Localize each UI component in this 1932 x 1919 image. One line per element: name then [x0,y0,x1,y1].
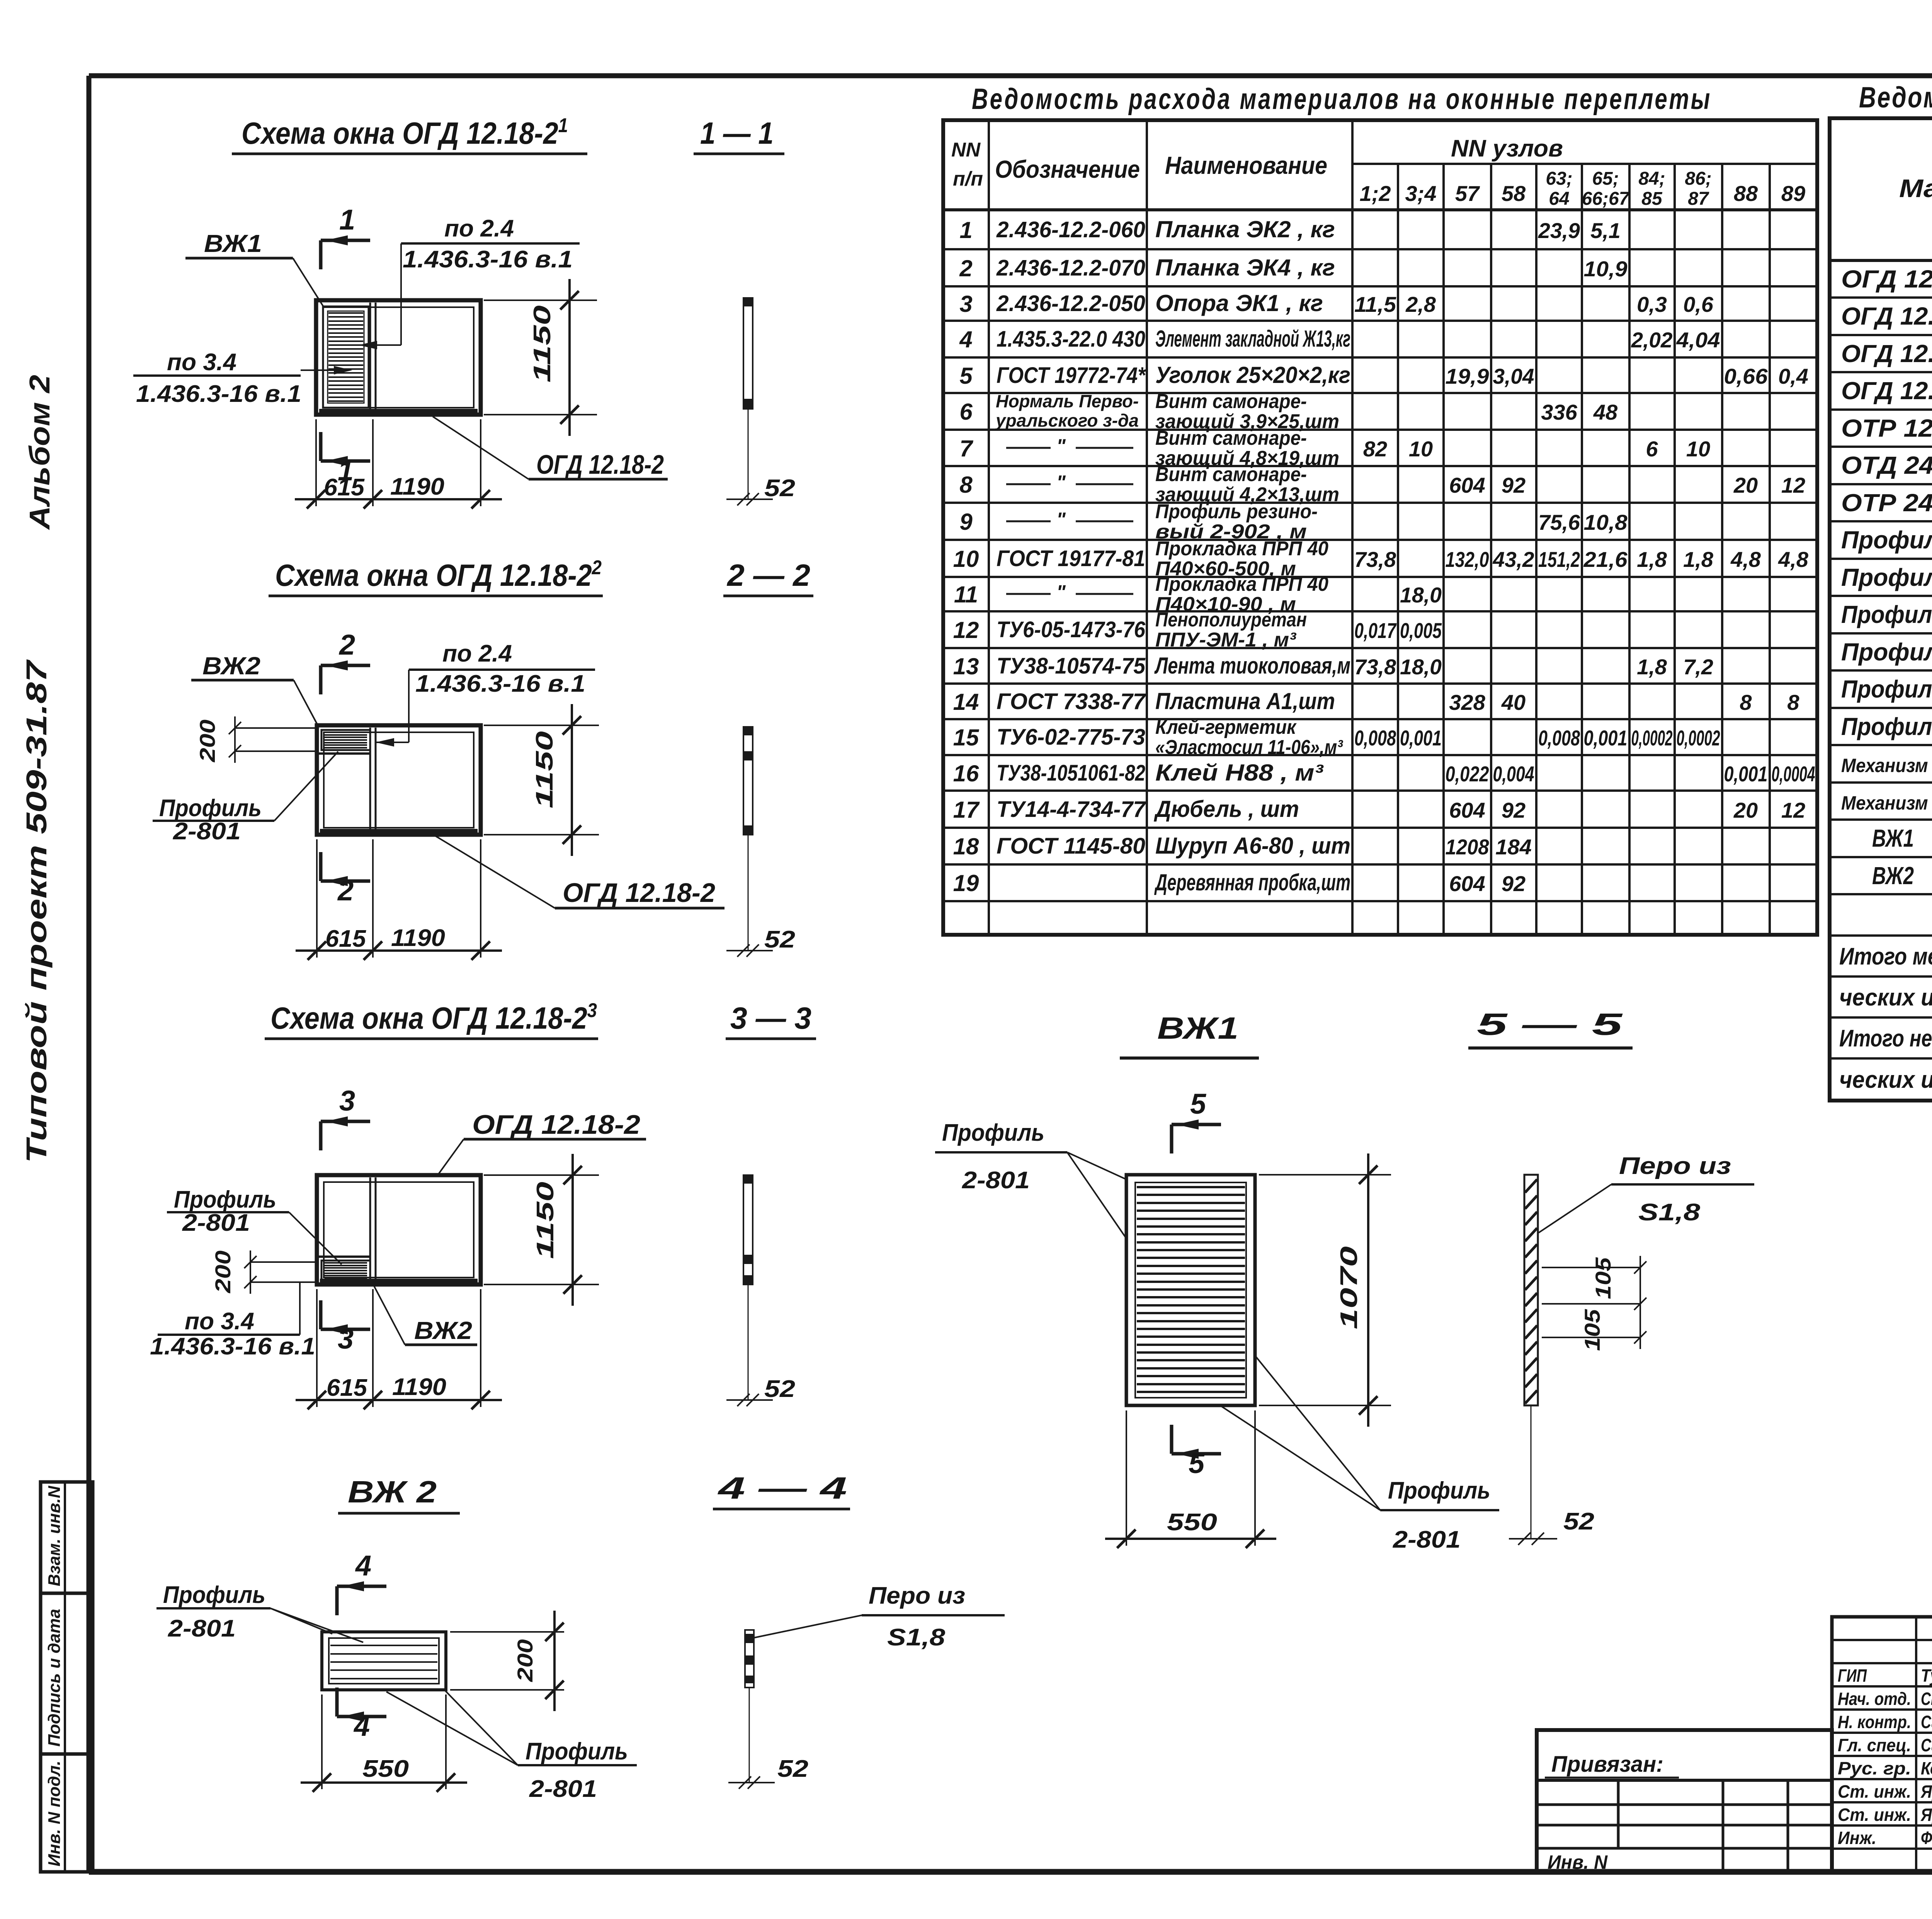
svg-text:ОГД 12.18-2: ОГД 12.18-2 [563,878,715,908]
svg-text:ОГД 12.18-2: ОГД 12.18-2 [1841,265,1932,293]
svg-text:Профиль 2-813: Профиль 2-813 [1841,563,1932,591]
leader label Перо из S1,8 (VZh1) [1539,1153,1754,1233]
svg-text:Винт самонаре-: Винт самонаре- [1155,390,1307,413]
svg-text:7: 7 [959,436,973,461]
svg-text:": " [1056,581,1066,603]
svg-text:64: 64 [1549,189,1569,209]
side view 2-2 bar [726,727,795,957]
svg-text:Клей-герметик: Клей-герметик [1155,716,1297,738]
dimension 550 (VZh1) [1105,1410,1276,1548]
section mark 4 top [337,1550,386,1615]
svg-text:Профиль 2-104: Профиль 2-104 [1841,638,1932,666]
svg-text:Ст. инж.: Ст. инж. [1838,1805,1911,1825]
svg-text:0,0002: 0,0002 [1677,726,1720,750]
leader label Профиль 2-801 (VZh1 bottom) [1222,1356,1499,1553]
svg-text:Туринский: Туринский [1921,1666,1932,1686]
scheme 3 title: Схема окна ОГД 12.18-2(3) [265,999,816,1039]
svg-text:2-801: 2-801 [173,818,241,845]
svg-text:604: 604 [1449,871,1485,896]
svg-text:43,2: 43,2 [1493,547,1534,572]
svg-text:14: 14 [953,689,979,715]
svg-text:ОГД 12.18-21: ОГД 12.18-21 [1841,299,1932,330]
svg-text:NN узлов: NN узлов [1451,135,1563,162]
svg-text:4 — 4: 4 — 4 [717,1471,847,1505]
svg-text:Фельдман: Фельдман [1921,1828,1932,1848]
svg-text:Элемент закладной Ж13,кг: Элемент закладной Ж13,кг [1155,326,1350,352]
svg-text:": " [1056,471,1066,493]
svg-text:Ярцева: Ярцева [1920,1805,1932,1825]
svg-text:ТУ6-02-775-73: ТУ6-02-775-73 [997,725,1145,750]
leader label Перо из S1,8 (VZh2) [754,1582,1005,1651]
svg-text:1 — 1: 1 — 1 [700,116,774,150]
svg-text:Рус. гр.: Рус. гр. [1838,1758,1911,1778]
svg-text:4: 4 [959,327,972,352]
section mark 2 top [321,629,370,694]
svg-text:Планка ЭК2 , кг: Планка ЭК2 , кг [1155,216,1335,242]
svg-text:615: 615 [325,925,367,952]
svg-text:Прокладка ПРП 40: Прокладка ПРП 40 [1155,573,1328,595]
svg-text:S1,8: S1,8 [887,1624,946,1651]
section mark 2 bottom [321,852,370,907]
leader label ВЖ2 (scheme 2) [191,652,318,726]
dimension 200 (scheme 2) [195,716,317,763]
svg-text:Профиль Н1: Профиль Н1 [1841,601,1932,628]
svg-text:Нач. отд.: Нач. отд. [1838,1689,1911,1709]
svg-text:Ярцева: Ярцева [1920,1781,1932,1802]
svg-text:3: 3 [338,1323,354,1355]
svg-text:0,001: 0,001 [1584,726,1628,750]
svg-text:0,004: 0,004 [1493,762,1534,786]
svg-text:1,8: 1,8 [1637,655,1667,679]
svg-text:«Эластосил 11-06»,м³: «Эластосил 11-06»,м³ [1155,736,1343,759]
svg-text:9: 9 [959,509,973,535]
dimension 1070 (VZh1) [1259,1153,1391,1427]
svg-text:5: 5 [1190,1088,1207,1120]
svg-text:6: 6 [1646,437,1658,461]
svg-text:4: 4 [353,1710,370,1742]
svg-text:ГОСТ 19772-74*: ГОСТ 19772-74* [997,363,1146,388]
svg-text:1190: 1190 [390,473,444,500]
svg-text:1.436.3-16 в.1: 1.436.3-16 в.1 [403,246,573,273]
svg-text:Подпись и дата: Подпись и дата [45,1609,64,1747]
svg-text:2: 2 [959,255,972,281]
svg-text:1190: 1190 [392,1374,446,1400]
svg-text:19: 19 [953,870,979,896]
svg-text:10: 10 [1409,437,1433,461]
svg-text:0,008: 0,008 [1354,726,1396,750]
svg-text:ОТД 24.18-2: ОТД 24.18-2 [1841,451,1932,479]
svg-text:ОТР 12.18-2: ОТР 12.18-2 [1841,414,1932,442]
svg-text:8: 8 [1787,690,1799,715]
svg-text:10,9: 10,9 [1584,257,1628,281]
svg-text:Альбом 2: Альбом 2 [24,375,56,530]
svg-text:92: 92 [1502,473,1526,497]
svg-text:Светичный: Светичный [1921,1689,1932,1709]
svg-text:200: 200 [513,1639,537,1682]
svg-text:82: 82 [1363,437,1387,461]
binding block (Привязан) [1537,1730,1832,1873]
svg-text:Ст. инж.: Ст. инж. [1838,1781,1911,1802]
svg-text:ТУ38-10574-75: ТУ38-10574-75 [997,653,1146,679]
svg-text:550: 550 [1167,1509,1217,1536]
svg-text:Профиль: Профиль [163,1582,265,1608]
svg-text:Итого металли-: Итого металли- [1839,943,1932,970]
svg-text:Инв. N: Инв. N [1548,1851,1608,1873]
svg-text:0,008: 0,008 [1538,726,1580,750]
svg-text:336: 336 [1541,400,1577,424]
svg-text:по 2.4: по 2.4 [444,215,514,242]
svg-text:11: 11 [954,582,978,607]
svg-text:ческих изделий: ческих изделий [1839,1067,1932,1093]
svg-text:0,0004: 0,0004 [1772,762,1815,786]
svg-text:2.436-12.2-070: 2.436-12.2-070 [996,255,1145,281]
svg-text:Н. контр.: Н. контр. [1838,1712,1911,1732]
svg-text:ВЖ1: ВЖ1 [204,230,262,257]
svg-text:Профиль Н5: Профиль Н5 [1841,675,1932,703]
central table grid [943,120,1817,935]
leader label ОГД 12.18-2 (scheme 1) [433,417,668,480]
svg-text:1150: 1150 [532,1182,559,1259]
svg-text:ВЖ1: ВЖ1 [1157,1011,1238,1045]
window OGD 12.18-2(3) plan [317,1175,481,1284]
svg-text:Взам. инв.N: Взам. инв.N [45,1485,64,1586]
window OGD 12.18-2(1) plan [316,300,481,415]
svg-text:Деревянная пробка,шт: Деревянная пробка,шт [1154,869,1350,895]
central table rows [953,216,1815,896]
svg-text:Ведомость расхода материалов п: Ведомость расхода материалов по сборочны… [1859,81,1932,114]
svg-text:3: 3 [339,1085,355,1117]
svg-text:ВЖ1: ВЖ1 [1872,824,1914,852]
svg-text:6: 6 [959,399,973,425]
svg-text:10: 10 [1686,437,1710,461]
svg-text:18: 18 [953,834,979,859]
title block staff entries [1838,1666,1932,1848]
svg-text:16: 16 [953,760,979,786]
svg-text:ческих изделий: ческих изделий [1839,984,1932,1011]
svg-text:12: 12 [953,617,979,643]
leader label Профиль 2-801 (VZh1 top) [935,1119,1126,1239]
leader label Профиль 2-801 (VZh2 bottom) [386,1691,637,1802]
svg-text:Саппульский: Саппульский [1921,1735,1932,1755]
VZh1 louvre panel drawing [1126,1175,1255,1405]
svg-text:184: 184 [1495,835,1531,859]
svg-text:по 2.4: по 2.4 [442,640,512,667]
svg-text:17: 17 [953,797,980,823]
svg-text:ГОСТ 7338-77: ГОСТ 7338-77 [997,689,1146,714]
svg-text:73,8: 73,8 [1354,547,1396,572]
svg-text:Привязан:: Привязан: [1551,1752,1663,1777]
svg-text:S1,8: S1,8 [1638,1199,1701,1226]
section mark 4 bottom [337,1688,386,1742]
dimension 1150 (scheme 3) [484,1154,599,1306]
svg-text:23,9: 23,9 [1538,218,1580,243]
svg-text:52: 52 [764,926,795,953]
svg-text:2: 2 [337,874,354,907]
central table headers [951,135,1805,209]
svg-text:0,022: 0,022 [1446,762,1489,786]
svg-text:88: 88 [1734,181,1758,206]
svg-text:ВЖ2: ВЖ2 [202,652,260,680]
svg-text:Пластина А1,шт: Пластина А1,шт [1155,688,1335,714]
svg-text:Гл. спец.: Гл. спец. [1838,1735,1911,1755]
svg-text:2 — 2: 2 — 2 [726,558,810,592]
svg-text:Дюбель , шт: Дюбель , шт [1153,796,1299,822]
svg-text:ТУ14-4-734-77: ТУ14-4-734-77 [997,797,1146,822]
svg-text:Марка: Марка [1899,174,1932,202]
svg-text:по 3.4: по 3.4 [185,1308,254,1335]
svg-text:52: 52 [764,475,795,502]
section mark 3 top [321,1085,370,1150]
svg-text:": " [1056,509,1066,530]
side view 4-4 bar [728,1630,808,1789]
svg-text:0,4: 0,4 [1778,364,1808,388]
svg-text:20: 20 [1733,798,1758,822]
svg-text:Обозначение: Обозначение [995,155,1140,183]
svg-text:65;: 65; [1592,168,1619,189]
svg-text:ППУ-ЭМ-1 , м³: ППУ-ЭМ-1 , м³ [1155,629,1297,651]
svg-text:Инж.: Инж. [1838,1828,1876,1848]
svg-text:12: 12 [1781,798,1805,822]
svg-text:Профиль: Профиль [526,1738,628,1765]
svg-text:ТУ38-1051061-82: ТУ38-1051061-82 [997,760,1145,786]
svg-text:1150: 1150 [529,305,556,383]
svg-text:8: 8 [959,472,973,498]
right table rows [1841,265,1932,890]
svg-text:40: 40 [1501,690,1526,715]
svg-text:19,9: 19,9 [1446,364,1489,388]
svg-text:3;4: 3;4 [1405,181,1437,206]
svg-text:5 — 5: 5 — 5 [1477,1007,1623,1041]
svg-text:10,8: 10,8 [1584,510,1628,534]
svg-text:Пенополиуретан: Пенополиуретан [1155,609,1307,631]
leader label ОГД 12.18-2 (scheme 3) [437,1109,646,1176]
svg-text:ГИП: ГИП [1838,1666,1867,1686]
right table grid [1830,118,1932,1101]
svg-text:ОГД 12.18-2: ОГД 12.18-2 [536,449,664,480]
svg-text:Схема окна ОГД 12.18-22: Схема окна ОГД 12.18-22 [275,556,602,592]
svg-text:Профиль резино-: Профиль резино- [1155,500,1318,523]
svg-text:Профиль: Профиль [174,1186,276,1213]
louvre vent VZh2 in scheme 3 [318,1257,370,1281]
svg-text:58: 58 [1502,181,1526,206]
svg-text:200: 200 [211,1250,235,1293]
leader label по 2.4 / 1.436.3-16 в.1 (scheme 2) [376,640,595,747]
section mark 5 top [1172,1088,1221,1153]
svg-text:Механизм открывания: Механизм открывания [1841,792,1932,814]
svg-text:4,8: 4,8 [1778,547,1809,572]
svg-text:ОГД 12.18-23: ОГД 12.18-23 [1841,373,1932,405]
svg-text:57: 57 [1455,181,1480,206]
svg-text:Прокладка ПРП 40: Прокладка ПРП 40 [1155,538,1328,560]
right table totals [1839,943,1932,1093]
svg-text:1.435.3-22.0 430: 1.435.3-22.0 430 [997,327,1145,352]
svg-text:200: 200 [195,720,219,762]
leader label Профиль 2-801 (scheme 3) [167,1186,342,1264]
svg-text:2-801: 2-801 [962,1167,1030,1194]
svg-text:0,017: 0,017 [1354,618,1397,643]
svg-text:1,8: 1,8 [1683,547,1714,572]
section mark 1 top [321,204,370,269]
svg-text:615: 615 [327,1375,368,1401]
svg-text:0,66: 0,66 [1724,364,1768,388]
svg-text:Шуруп А6-80 , шт: Шуруп А6-80 , шт [1155,833,1350,859]
svg-text:2.436-12.2-060: 2.436-12.2-060 [996,217,1145,242]
svg-text:Инв. N подл.: Инв. N подл. [45,1761,64,1866]
svg-text:20: 20 [1733,473,1758,497]
scheme 2 title: Схема окна ОГД 12.18-2(2) [269,556,813,596]
svg-text:48: 48 [1593,400,1618,424]
svg-text:Планка ЭК4 , кг: Планка ЭК4 , кг [1155,255,1335,281]
leader label по 3.4 / 1.436.3-16 в.1 (scheme 3) [150,1282,315,1360]
svg-text:7,2: 7,2 [1683,655,1713,679]
svg-text:615: 615 [324,474,365,501]
section mark 3 bottom [321,1300,370,1355]
svg-text:1208: 1208 [1446,835,1490,859]
VZh2 detail title [338,1471,850,1513]
side view 3-3 bar [726,1175,795,1406]
svg-text:1;2: 1;2 [1360,181,1391,206]
svg-text:Профиль: Профиль [1388,1477,1490,1504]
svg-text:604: 604 [1449,798,1485,822]
svg-text:ОГД 12.18-22: ОГД 12.18-22 [1841,336,1932,367]
svg-text:52: 52 [777,1756,808,1782]
leader label ОГД 12.18-2 (scheme 2) [436,836,724,908]
svg-text:3: 3 [959,291,972,317]
svg-text:4: 4 [355,1550,371,1582]
svg-text:ГОСТ 1145-80: ГОСТ 1145-80 [997,834,1145,859]
dimension 1150 (scheme 1) [484,279,597,436]
svg-text:328: 328 [1449,690,1485,715]
svg-text:5: 5 [959,363,973,389]
svg-text:ВЖ 2: ВЖ 2 [348,1475,437,1509]
louvre vent VZh1 in scheme 1 [323,306,369,408]
svg-text:1: 1 [339,204,355,236]
svg-text:132,0: 132,0 [1446,547,1489,572]
svg-text:Типовой проект 509-31.87: Типовой проект 509-31.87 [20,659,53,1163]
svg-text:Профиль: Профиль [942,1119,1044,1146]
dimensions 105 / 105 (VZh1 side) [1542,1256,1646,1351]
svg-text:Винт самонаре-: Винт самонаре- [1155,463,1307,486]
svg-text:0,001: 0,001 [1724,762,1768,786]
svg-text:Ведомость расхода материалов н: Ведомость расхода материалов на оконные … [972,83,1712,116]
title block staff grid [1832,1617,1932,1872]
svg-text:Схема окна ОГД 12.18-23: Схема окна ОГД 12.18-23 [270,999,597,1035]
svg-text:0,3: 0,3 [1637,292,1667,316]
svg-text:Уголок 25×20×2,кг: Уголок 25×20×2,кг [1155,362,1350,388]
svg-text:13: 13 [953,653,979,679]
VZh2 louvre panel drawing [322,1632,446,1690]
dimension 200 (VZh2) [450,1611,564,1711]
leader label ВЖ2 (scheme 3) [374,1286,477,1345]
svg-text:0,001: 0,001 [1400,726,1442,750]
leader label по 2.4 / 1.436.3-16 в.1 (scheme 1) [359,215,580,349]
svg-text:105: 105 [1580,1309,1604,1351]
svg-text:ВЖ2: ВЖ2 [414,1317,472,1344]
section mark 5 bottom [1172,1425,1221,1479]
svg-text:2-801: 2-801 [168,1615,236,1642]
svg-text:Лента тиоколовая,м: Лента тиоколовая,м [1154,653,1350,679]
svg-text:3,04: 3,04 [1493,364,1534,388]
svg-text:12: 12 [1781,473,1805,497]
svg-text:0,6: 0,6 [1683,292,1714,316]
svg-text:Перо из: Перо из [869,1582,965,1609]
margin stamp table [41,1482,93,1872]
svg-text:52: 52 [764,1376,795,1402]
svg-text:66;67: 66;67 [1582,189,1630,209]
side view 5-5 hatched bar [1509,1175,1594,1545]
svg-text:18,0: 18,0 [1400,655,1442,679]
svg-text:Итого неметалли-: Итого неметалли- [1839,1025,1932,1052]
svg-text:11,5: 11,5 [1354,292,1396,316]
svg-text:Перо из: Перо из [1619,1153,1731,1179]
svg-text:105: 105 [1591,1257,1615,1299]
section mark 1 bottom [321,432,370,487]
svg-text:2,8: 2,8 [1405,292,1436,316]
svg-text:ОТР 24.18-2: ОТР 24.18-2 [1841,489,1932,517]
svg-text:52: 52 [1563,1508,1594,1535]
svg-text:Профиль Н5: Профиль Н5 [1841,713,1932,740]
svg-text:Схема окна ОГД 12.18-21: Схема окна ОГД 12.18-21 [241,114,568,150]
svg-text:ВЖ2: ВЖ2 [1872,862,1914,890]
svg-text:1.436.3-16 в.1: 1.436.3-16 в.1 [136,381,301,407]
louvre vent VZh2 in scheme 2 [318,730,370,754]
svg-text:Профиль 2-012: Профиль 2-012 [1841,526,1932,554]
dimensions 615 / 1190 (scheme 2) [296,839,502,960]
dimension 1150 (scheme 2) [484,704,599,856]
svg-text:89: 89 [1781,181,1805,206]
svg-text:92: 92 [1502,798,1526,822]
svg-text:85: 85 [1641,189,1663,209]
right table headers [1899,131,1932,252]
svg-text:Наименование: Наименование [1165,151,1327,179]
svg-text:87: 87 [1688,189,1709,209]
svg-text:86;: 86; [1685,168,1711,189]
svg-text:550: 550 [362,1756,409,1782]
svg-text:по 3.4: по 3.4 [167,349,236,376]
svg-text:10: 10 [953,546,979,572]
svg-text:Корсунский: Корсунский [1921,1758,1932,1778]
svg-text:1070: 1070 [1336,1246,1362,1329]
svg-text:3 — 3: 3 — 3 [730,1001,811,1035]
svg-text:18,0: 18,0 [1400,583,1442,607]
svg-text:5: 5 [1189,1447,1205,1479]
svg-text:NN: NN [951,139,981,161]
svg-text:2: 2 [338,629,355,661]
svg-text:Опора ЭК1 , кг: Опора ЭК1 , кг [1155,290,1323,316]
leader label по 3.4 / 1.436.3-16 в.1 (scheme 1) [133,349,352,407]
side view 1-1 bar [726,298,795,505]
svg-text:Нормаль Перво-: Нормаль Перво- [996,391,1139,411]
svg-text:ОГД 12.18-2: ОГД 12.18-2 [472,1109,640,1140]
svg-text:1,8: 1,8 [1637,547,1667,572]
svg-text:2,02: 2,02 [1631,328,1673,352]
dimensions 615 / 1190 (scheme 3) [296,1289,502,1409]
svg-text:5,1: 5,1 [1590,218,1621,243]
svg-text:2-801: 2-801 [182,1210,250,1236]
svg-text:1.436.3-16 в.1: 1.436.3-16 в.1 [415,670,585,697]
window OGD 12.18-2(2) plan [317,725,481,835]
svg-text:604: 604 [1449,473,1485,497]
svg-text:п/п: п/п [953,168,983,190]
leader label Профиль 2-801 (scheme 2) [153,752,338,845]
svg-text:ГОСТ 19177-81: ГОСТ 19177-81 [997,546,1145,571]
svg-text:21,6: 21,6 [1583,547,1628,572]
svg-text:уральского з-да: уральского з-да [995,410,1139,430]
svg-text:84;: 84; [1638,168,1665,189]
svg-text:73,8: 73,8 [1354,655,1396,679]
svg-text:Профиль: Профиль [159,795,262,822]
svg-text:1150: 1150 [531,731,558,808]
